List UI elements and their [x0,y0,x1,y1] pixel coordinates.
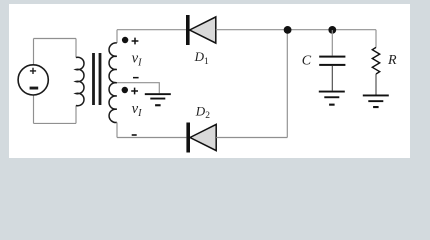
polarity dot top [122,37,128,43]
polarity dot bottom [122,87,128,93]
resistor R [372,47,379,74]
wire primary top lead [75,39,77,58]
wire source loop bottom [34,122,77,124]
wire capacitor top lead [331,30,333,56]
svg-text:R: R [387,53,397,68]
plus label bottom [131,88,138,95]
node junction dot left [284,26,292,34]
transformer core [94,53,101,105]
wire capacitor bottom lead [331,66,333,91]
wire source loop top [34,38,77,40]
minus label top [133,77,139,79]
wire primary bottom lead [75,106,77,124]
wire secondary top lead [116,30,118,43]
wire D2 to riser [216,137,287,139]
ground capacitor [319,91,345,106]
plus label top [132,38,139,45]
wire resistor top lead [375,30,377,48]
wire source loop left upper [33,39,35,65]
diode D1 [186,15,216,45]
wire resistor bottom lead [375,74,377,95]
wire source loop left lower [33,95,35,123]
diode D2 [186,123,216,153]
ground center tap [145,93,171,106]
node junction dot capacitor [328,26,336,34]
svg-text:C: C [302,54,312,69]
capacitor C [319,56,345,66]
ground resistor [363,95,389,109]
wire center tap [117,83,159,94]
wire secondary top to D1 [117,29,186,31]
wire secondary bottom lead [116,122,118,137]
ac source VS [18,65,48,95]
transformer primary winding L1 [76,57,84,106]
transformer secondary winding L2 [109,43,117,123]
minus label bottom [132,134,137,136]
wire riser up to node [286,30,288,138]
wire D1 to resistor top [216,29,376,31]
wire secondary bottom to D2 [117,137,186,139]
